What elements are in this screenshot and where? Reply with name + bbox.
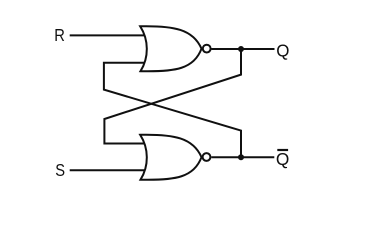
svg-text:S: S [55,161,65,180]
svg-text:R: R [54,26,65,45]
svg-text:Q: Q [276,40,289,60]
svg-text:Q: Q [276,149,289,169]
